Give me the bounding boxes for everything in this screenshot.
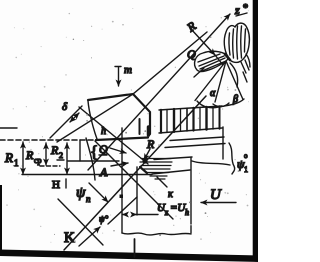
node U dimension [123, 214, 159, 216]
wire diagonal P1 [79, 107, 148, 164]
wire band line under teeth [170, 137, 224, 141]
svg-text:ψ°: ψ° [99, 214, 109, 224]
svg-text:n: n [86, 194, 91, 204]
wire workpiece bottom wavy [122, 233, 191, 235]
wire parallel segment [108, 197, 137, 224]
svg-text:2: 2 [59, 151, 63, 160]
wire Q leader arrow [110, 148, 126, 153]
svg-text:U: U [210, 187, 222, 203]
svg-text:K: K [64, 230, 75, 246]
svg-text:1: 1 [14, 158, 19, 168]
wire band bottom [22, 174, 152, 176]
svg-text:R: R [184, 18, 199, 35]
wire cut layer hatch wedge [140, 159, 172, 180]
svg-text:=U: =U [170, 202, 186, 214]
node Rcp dimension [25, 143, 60, 166]
wire grain fan left edge [195, 61, 226, 101]
wire psi_n arrow [89, 183, 108, 202]
node Uz=Uh label [157, 202, 189, 217]
wire band right edge [222, 127, 224, 159]
svg-text:R: R [50, 143, 59, 157]
wire tool bottom edge [96, 138, 148, 141]
wire K arrow [79, 227, 100, 246]
wire band top dashed [0, 127, 17, 129]
node m arrow [115, 64, 132, 86]
wire band line 2 [165, 144, 225, 148]
wire surface step [152, 170, 190, 174]
svg-text:ψ: ψ [76, 185, 86, 201]
wire diagonal P4 [58, 199, 103, 245]
wire grain fan right edge [226, 61, 243, 100]
svg-text:o: o [244, 152, 248, 160]
node U vector [201, 187, 236, 203]
svg-text:δ: δ [62, 101, 68, 113]
resistor teeth bars [161, 106, 220, 133]
node delta [50, 101, 82, 138]
wire psi-n flank curve [86, 138, 95, 180]
node H [52, 179, 66, 191]
wire diagonal L3 [57, 32, 207, 142]
wire psi1 brace [229, 143, 235, 174]
svg-text:α: α [210, 88, 216, 99]
node junction dot [120, 195, 124, 199]
svg-text:cp: cp [34, 156, 42, 165]
wire fan arc [197, 99, 244, 108]
wire grain fan bisector [215, 61, 226, 102]
wire teeth top [159, 106, 222, 110]
wire R arrow [144, 149, 150, 160]
wire tool right face [139, 119, 141, 134]
svg-text:m: m [124, 64, 132, 76]
wire right border [253, 0, 258, 260]
svg-text:R: R [25, 148, 34, 162]
node psi_n [76, 185, 91, 204]
wire diagonal P2 [95, 141, 173, 219]
wire extension [79, 140, 81, 161]
node R2 dimension [50, 143, 67, 174]
wire main diagonal L1 [64, 96, 206, 250]
node R1 dimension [4, 142, 23, 174]
wire speckle noise [6, 8, 249, 243]
wire vertical V2 [136, 167, 138, 215]
wire force line L2 [191, 29, 215, 55]
wire diagonal L1b [88, 14, 230, 170]
svg-text:h: h [185, 208, 189, 217]
svg-text:R: R [4, 150, 13, 165]
wire band mid A-line [68, 160, 119, 162]
svg-text:Q: Q [187, 47, 196, 61]
node psi1 label [237, 152, 248, 174]
node z* label [234, 3, 248, 17]
transistor chip blob [194, 23, 250, 87]
wire workpiece right edge [190, 158, 192, 233]
wire tool body [88, 94, 150, 139]
svg-text:1: 1 [244, 165, 248, 174]
svg-text:β: β [232, 94, 238, 105]
wire left border [0, 185, 2, 253]
wire bottom tick [134, 239, 136, 257]
svg-text:{: { [90, 142, 98, 161]
node knot at tip [142, 158, 147, 163]
node k small label [157, 177, 173, 200]
svg-text:A: A [99, 165, 108, 179]
svg-text:κ: κ [168, 189, 173, 200]
wire surface line [154, 157, 192, 160]
node Q left [90, 142, 108, 161]
wire bottom border [0, 250, 258, 262]
wire teeth bottom [159, 128, 222, 133]
wire psi1 leader [192, 161, 230, 165]
wire vertical V1 [121, 128, 123, 233]
svg-text:H: H [52, 179, 60, 191]
wire A leader arrow [111, 163, 128, 166]
